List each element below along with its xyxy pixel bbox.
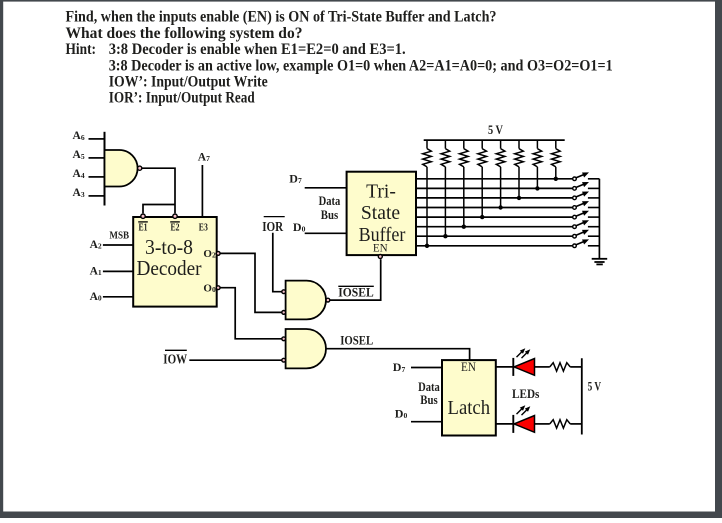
resistor R3 pullup [460, 140, 469, 227]
label MSB [109, 229, 129, 241]
wire data line bit 5 from buffer [416, 197, 573, 199]
svg-text:IOW: IOW [163, 351, 187, 366]
junction R1 to data line [425, 244, 429, 248]
svg-text:A4: A4 [73, 168, 85, 180]
svg-text:Bus: Bus [420, 393, 438, 407]
label Data Bus (latch) [418, 380, 440, 407]
junction R7 to data line [535, 186, 539, 190]
svg-text:Data: Data [319, 194, 341, 208]
resistor R6 pullup [515, 140, 524, 198]
node A4 [73, 168, 105, 180]
svg-text:IOR’: Input/Output Read: IOR’: Input/Output Read [109, 90, 255, 107]
junction R2 to data line [443, 234, 447, 238]
node A3 [73, 187, 105, 199]
svg-text:A7: A7 [198, 151, 210, 163]
svg-text:IOR: IOR [262, 219, 283, 234]
svg-text:Decoder: Decoder [137, 256, 202, 280]
resistor R4 pullup [478, 140, 487, 217]
junction R8 to data line [554, 177, 558, 181]
wire data line bit 7 from buffer [416, 178, 573, 180]
net 5V (LED side) [582, 358, 601, 434]
svg-text:Data: Data [418, 380, 440, 394]
svg-text:What does the following system: What does the following system do? [66, 25, 303, 42]
svg-text:5 V: 5 V [488, 123, 503, 137]
svg-text:Tri-: Tri- [366, 181, 396, 203]
node A7 [198, 151, 210, 217]
pin E1 (active low) [138, 214, 148, 234]
wire O2 to U3 input [220, 253, 281, 312]
switch SW6 [573, 220, 600, 228]
svg-text:A0: A0 [90, 291, 102, 303]
svg-text:MSB: MSB [109, 229, 129, 241]
ground [592, 259, 608, 265]
net IOR (active low) [262, 217, 285, 292]
resistor R8 pullup [552, 140, 561, 179]
node D0 (buffer) [293, 220, 347, 234]
wire data line bit 0 from buffer [416, 245, 573, 247]
wire O0 to U4 input [220, 288, 281, 339]
problem statement text [66, 9, 613, 107]
svg-text:State: State [361, 202, 400, 224]
resistor R2 pullup [441, 140, 450, 236]
svg-text:Find, when the inputs enable (: Find, when the inputs enable (EN) is ON … [66, 9, 497, 26]
net IOSEL-bar to buffer EN [330, 259, 381, 300]
LED DA1 [513, 348, 534, 376]
svg-text:Hint:: Hint: [66, 41, 97, 58]
pin E3 [199, 222, 208, 234]
svg-text:3:8 Decoder is an active low,: 3:8 Decoder is an active low, example O1… [109, 57, 613, 74]
wire U1 output to decoder enables [142, 168, 175, 213]
svg-text:E2: E2 [171, 222, 180, 234]
pin E2 (active low) [170, 214, 180, 234]
wire data line bit 4 from buffer [416, 207, 573, 209]
and gate U4 [282, 329, 326, 368]
pin O0 (active low) [203, 282, 220, 294]
svg-text:IOSEL: IOSEL [338, 285, 373, 299]
switch SW2 [573, 182, 600, 190]
svg-text:Latch: Latch [448, 397, 491, 419]
switch SW1 [573, 172, 600, 180]
svg-text:3:8 Decoder is enable when E1=: 3:8 Decoder is enable when E1=E2=0 and E… [109, 41, 406, 58]
switch SW4 [573, 201, 600, 209]
svg-text:IOW’: Input/Output Write: IOW’: Input/Output Write [109, 73, 268, 90]
junction R6 to data line [517, 196, 521, 200]
switch SW3 [573, 192, 600, 200]
junction R3 to data line [462, 225, 466, 229]
node A0 [90, 291, 134, 303]
wire data line bit 6 from buffer [416, 187, 573, 189]
label IOSEL [340, 334, 373, 348]
svg-text:E1: E1 [139, 222, 148, 234]
pin EN (active low) of buffer [378, 255, 382, 259]
svg-text:A6: A6 [73, 130, 85, 142]
switch SW5 [573, 211, 600, 219]
wire latch output bit 7 [496, 366, 514, 368]
net 5V rail [424, 123, 565, 140]
junction R4 to data line [480, 215, 484, 219]
resistor R10 series [535, 420, 582, 428]
node D7 (latch) [393, 360, 442, 374]
svg-text:O2: O2 [203, 248, 216, 260]
latch U6 [442, 360, 496, 436]
nand gate U1 [105, 150, 142, 187]
node A6 [73, 130, 105, 142]
node D7 (buffer) [289, 171, 346, 187]
wire data line bit 2 from buffer [416, 226, 573, 228]
wire data line bit 3 from buffer [416, 216, 573, 218]
svg-text:O0: O0 [203, 282, 216, 294]
label LEDs [512, 387, 540, 401]
svg-text:A3: A3 [73, 187, 85, 199]
wire switch common bar [598, 179, 600, 258]
svg-text:A2: A2 [90, 239, 102, 251]
svg-text:E3: E3 [199, 222, 208, 234]
LED DB2 [513, 405, 534, 433]
label IOSEL-bar [338, 285, 374, 299]
label Data Bus (buffer) [319, 194, 341, 222]
svg-text:A1: A1 [90, 265, 102, 277]
tri-state buffer U5 [347, 172, 416, 255]
decoder U2 3-to-8 [133, 217, 217, 307]
wire latch output bit 0 [496, 423, 514, 425]
wire input bus vertical [104, 132, 106, 206]
resistor R7 pullup [533, 140, 542, 188]
node A1 [90, 265, 134, 277]
node D0 (latch) [395, 406, 442, 421]
svg-text:EN: EN [373, 240, 388, 254]
svg-text:EN: EN [461, 360, 476, 374]
svg-text:Bus: Bus [321, 208, 339, 222]
node A2 [90, 239, 134, 251]
switch SW8 [573, 239, 600, 247]
resistor R5 pullup [496, 140, 505, 207]
switch SW7 [573, 230, 600, 238]
net IOW (active low) [163, 350, 281, 366]
wire data line bit 1 from buffer [416, 235, 573, 237]
and gate U3 [282, 281, 330, 320]
resistor R9 series [535, 363, 582, 371]
pin O2 (active low) [203, 248, 220, 260]
net IOSEL to latch EN [326, 349, 470, 360]
svg-text:IOSEL: IOSEL [340, 334, 373, 348]
node A5 [73, 149, 105, 161]
svg-text:LEDs: LEDs [512, 387, 540, 401]
svg-text:A5: A5 [73, 149, 85, 161]
svg-text:5 V: 5 V [588, 380, 602, 394]
resistor R1 pullup [423, 140, 432, 246]
junction R5 to data line [498, 205, 502, 209]
